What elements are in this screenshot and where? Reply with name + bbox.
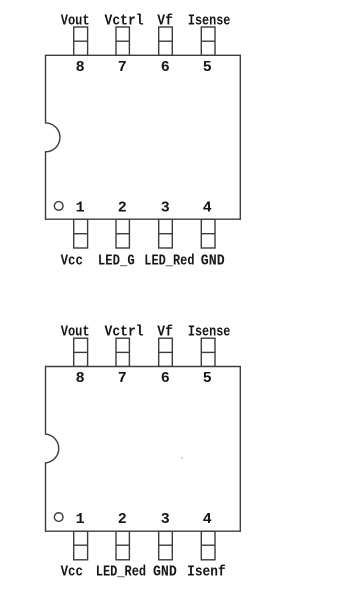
svg-text:LED_Red: LED_Red xyxy=(96,564,146,581)
svg-text:8: 8 xyxy=(76,59,85,76)
svg-text:6: 6 xyxy=(161,370,170,387)
svg-text:Vout: Vout xyxy=(61,324,90,341)
U2 pin 7 lead xyxy=(116,338,129,366)
svg-text:Vf: Vf xyxy=(157,12,173,29)
U1 pin 4 lead xyxy=(201,219,215,248)
svg-text:1: 1 xyxy=(76,511,85,528)
svg-text:1: 1 xyxy=(76,200,85,217)
U1 pin 2 lead xyxy=(116,219,129,248)
U2 pin 8 lead xyxy=(74,338,88,366)
U1 pin 5 lead xyxy=(201,27,215,55)
U2 pin 6 lead xyxy=(159,338,173,366)
U2 pin 1 lead xyxy=(74,531,88,560)
U1 pin 1 indicator circle xyxy=(54,202,63,211)
svg-text:3: 3 xyxy=(161,511,170,528)
U2 pin 1 indicator circle xyxy=(54,513,63,522)
U1 pin 3 lead xyxy=(159,219,173,248)
svg-text:6: 6 xyxy=(161,59,170,76)
svg-text:Vout: Vout xyxy=(61,12,90,29)
svg-text:LED_Red: LED_Red xyxy=(144,252,194,269)
svg-text:7: 7 xyxy=(118,59,127,76)
U2 pin 3 lead xyxy=(159,531,173,560)
svg-text:3: 3 xyxy=(161,200,170,217)
svg-text:5: 5 xyxy=(203,59,212,76)
U2 pin 2 lead xyxy=(116,531,129,560)
IC U1 (top package) package body with pin-1 end notch xyxy=(46,55,241,219)
U1 pin 6 lead xyxy=(159,27,173,55)
stray print speck xyxy=(181,457,183,459)
svg-text:LED_G: LED_G xyxy=(98,252,135,269)
U2 pin 5 lead xyxy=(201,338,215,366)
svg-text:8: 8 xyxy=(76,370,85,387)
IC U2 (bottom package) package body with pin-1 end notch xyxy=(46,367,241,532)
svg-text:2: 2 xyxy=(118,511,127,528)
U1 pin 8 lead xyxy=(74,27,88,55)
svg-text:Vcc: Vcc xyxy=(61,252,83,269)
svg-text:5: 5 xyxy=(203,370,212,387)
svg-text:Vf: Vf xyxy=(157,324,173,341)
svg-text:7: 7 xyxy=(118,370,127,387)
U1 pin 7 lead xyxy=(116,27,129,55)
svg-text:Vcc: Vcc xyxy=(61,564,83,581)
svg-text:GND: GND xyxy=(201,252,225,269)
svg-text:Isense: Isense xyxy=(188,12,231,29)
svg-text:4: 4 xyxy=(203,511,212,528)
svg-text:GND: GND xyxy=(153,564,177,581)
svg-text:Isense: Isense xyxy=(188,324,231,341)
U1 pin 1 lead xyxy=(74,219,88,248)
svg-text:4: 4 xyxy=(203,200,212,217)
svg-text:Vctrl: Vctrl xyxy=(105,12,144,29)
svg-text:2: 2 xyxy=(118,200,127,217)
svg-text:Vctrl: Vctrl xyxy=(105,324,144,341)
svg-text:Isenf: Isenf xyxy=(187,564,226,581)
U2 pin 4 lead xyxy=(201,531,215,560)
